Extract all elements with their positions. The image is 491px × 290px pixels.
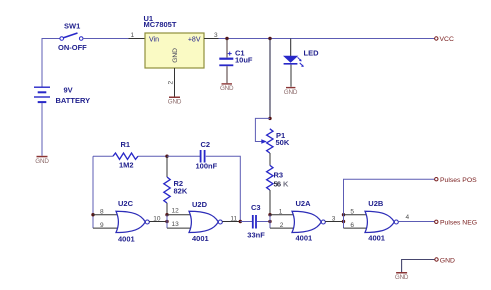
node junction R2 pin12 (165, 213, 168, 216)
svg-text:9V: 9V (64, 86, 73, 95)
wire U2B pin 6 (344, 222, 370, 229)
svg-text:100nF: 100nF (196, 161, 218, 170)
svg-text:4001: 4001 (368, 234, 385, 243)
op-amp U2D gate 4001 (189, 200, 222, 243)
wire battery bottom (41, 103, 43, 156)
svg-text:82K: 82K (174, 187, 188, 196)
wire U2B output pin 4 (398, 214, 434, 222)
svg-text:1: 1 (131, 32, 135, 39)
svg-text:Pulses POS: Pulses POS (440, 177, 477, 184)
svg-text:C2: C2 (201, 140, 211, 149)
svg-text:GND: GND (172, 48, 179, 63)
svg-text:4001: 4001 (192, 234, 209, 243)
svg-text:GND: GND (284, 89, 298, 96)
node junction POS branch (342, 213, 345, 216)
svg-text:3: 3 (332, 216, 336, 223)
terminal Pulses NEG (435, 220, 477, 227)
ground under U1 (168, 97, 182, 106)
wire GND terminal net (402, 260, 435, 273)
capacitor C3 33nF (247, 203, 265, 239)
wire P1 wiper loop (255, 118, 270, 141)
wire C1 bottom stub (226, 66, 228, 83)
svg-text:GND: GND (440, 257, 455, 264)
wire U2A input vertical (269, 215, 271, 228)
svg-text:GND: GND (168, 99, 182, 106)
svg-text:U2B: U2B (368, 199, 384, 208)
svg-text:12: 12 (172, 208, 180, 215)
capacitor C2 100nF (196, 140, 218, 170)
svg-text:GND: GND (220, 85, 234, 92)
svg-text:BATTERY: BATTERY (56, 96, 91, 105)
wire LED stub (290, 39, 292, 57)
resistor R1 1M2 (113, 140, 138, 170)
U1 pin 2 stub (168, 68, 175, 97)
ground under battery (35, 156, 49, 165)
wire rail down to P1 (269, 39, 271, 119)
op-amp U2C gate 4001 (116, 199, 149, 243)
wire battery top to switch (42, 39, 60, 88)
wire U2D input vertical (166, 215, 168, 228)
terminal VCC (435, 36, 454, 43)
op-amp U2A gate 4001 (292, 199, 325, 243)
terminal Pulses POS (435, 177, 478, 184)
node junction R3/U2A pin1 (268, 213, 271, 216)
wire U2C pin 9 (93, 222, 120, 229)
wire C1 top stub (226, 39, 228, 58)
svg-text:U2C: U2C (118, 199, 134, 208)
svg-text:11: 11 (230, 216, 237, 223)
ground bottom right (395, 272, 409, 281)
svg-text:Pulses NEG: Pulses NEG (440, 220, 477, 227)
wire R3 bottom (269, 190, 271, 215)
wire POS branch up and right (344, 179, 435, 228)
wire R1 row left (93, 155, 113, 157)
svg-text:R3: R3 (274, 171, 284, 180)
svg-text:GND: GND (395, 274, 409, 281)
wire switch to U1 pin1 (83, 38, 129, 40)
svg-text:10uF: 10uF (235, 56, 253, 65)
wire C3 right (257, 221, 270, 223)
svg-text:U2A: U2A (296, 199, 312, 208)
svg-text:2: 2 (168, 81, 175, 85)
U1 pin 3 stub (204, 32, 219, 39)
node junction P1 wiper (268, 117, 271, 120)
resistor R2 82K (164, 177, 188, 203)
wire LED bottom stub (290, 65, 292, 87)
wire U2C output pin 10 (149, 216, 167, 223)
wire C2 right down to pin11 row (206, 156, 241, 221)
svg-text:+8V: +8V (188, 37, 201, 44)
capacitor C1 (219, 48, 253, 66)
svg-text:ON-OFF: ON-OFF (58, 43, 87, 52)
svg-text:U2D: U2D (192, 200, 208, 209)
wire U2D pin 13 (167, 221, 193, 228)
svg-text:1: 1 (279, 209, 283, 216)
resistor R3 56K (267, 165, 289, 190)
svg-text:33nF: 33nF (247, 230, 265, 239)
wire U2A output pin 3 (325, 216, 343, 223)
svg-text:GND: GND (35, 158, 49, 165)
op-amp U1 regulator MC7805T (144, 14, 205, 68)
node junction C1 top (225, 37, 228, 40)
terminal GND (435, 257, 455, 264)
op-amp U2B gate 4001 (365, 199, 398, 243)
wire R2 bottom stub (166, 203, 168, 215)
svg-text:56: 56 (274, 180, 281, 189)
svg-text:4: 4 (406, 214, 410, 221)
wire R1 right to junction (138, 155, 166, 157)
svg-text:Vin: Vin (149, 37, 159, 44)
node junction U2D inputs (165, 220, 168, 223)
svg-text:VCC: VCC (440, 36, 454, 43)
wire U2C pin 8 (93, 209, 120, 216)
LED diode (283, 48, 319, 67)
wire U2B pin 5 (344, 209, 370, 216)
ground under C1 (220, 83, 234, 92)
wire junction to C2 (167, 155, 200, 157)
svg-text:5: 5 (350, 209, 354, 216)
U1 pin 1 stub (129, 32, 146, 39)
svg-text:4001: 4001 (296, 234, 313, 243)
battery BT1 9V (34, 86, 90, 106)
svg-text:MC7805T: MC7805T (144, 20, 177, 29)
wire C3 left (240, 221, 252, 223)
svg-text:R1: R1 (121, 140, 131, 149)
node junction U2B inputs (342, 220, 345, 223)
svg-text:10: 10 (153, 216, 161, 223)
svg-text:1M2: 1M2 (119, 161, 134, 170)
potentiometer P1 50K (261, 129, 290, 153)
wire U1 to VCC rail (219, 38, 435, 40)
switch SW1 (58, 22, 87, 53)
svg-text:50K: 50K (276, 138, 290, 147)
svg-text:13: 13 (172, 221, 180, 228)
node junction C2/C3/pin11 (239, 220, 242, 223)
node junction P1 branch on rail (268, 37, 271, 40)
wire R2 top stub (166, 156, 168, 177)
wire U2A pin 2 (270, 222, 296, 229)
svg-text:6: 6 (350, 222, 354, 229)
wire U2D output pin 11 (222, 216, 240, 223)
node junction C3/U2A (268, 220, 271, 223)
svg-text:K: K (283, 180, 289, 189)
svg-text:3: 3 (214, 32, 218, 39)
node junction R1/R2/C2 (165, 155, 168, 158)
svg-text:SW1: SW1 (64, 22, 80, 31)
svg-text:2: 2 (280, 222, 284, 229)
wire P1 to R3 (269, 153, 271, 165)
svg-text:C3: C3 (251, 203, 261, 212)
svg-text:8: 8 (100, 209, 104, 216)
node junction U2C pin8 (91, 213, 94, 216)
svg-text:9: 9 (100, 222, 104, 229)
wire R1 left vertical (92, 156, 94, 228)
wire U2A pin 1 (270, 209, 296, 216)
svg-text:LED: LED (304, 48, 320, 57)
svg-text:4001: 4001 (118, 235, 135, 244)
wire U2D pin 12 (167, 208, 193, 215)
ground under LED (284, 87, 298, 96)
